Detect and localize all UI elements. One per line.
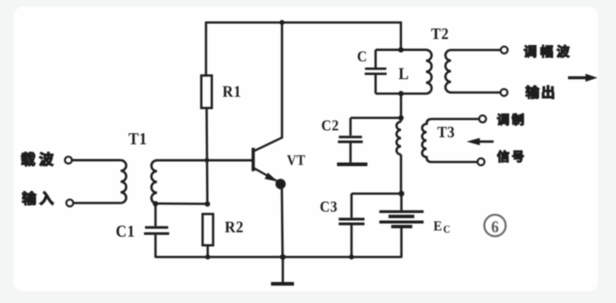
T1 label [129, 133, 146, 144]
transformer T3 secondary winding [422, 119, 479, 162]
label modulation (tiao zhi) [497, 114, 523, 126]
terminal carrier input top [65, 157, 72, 164]
wire T3 primary bottom to battery node [400, 155, 402, 194]
terminal signal bottom [478, 158, 485, 165]
transformer T2 secondary winding [445, 50, 451, 92]
wire tank left branch upper [374, 50, 376, 68]
figure number circled 6 [484, 215, 505, 236]
transformer T1 secondary winding [151, 160, 157, 203]
capacitor C tank [365, 67, 386, 69]
T2 label [431, 28, 448, 39]
wire tank left branch lower [374, 75, 376, 94]
wire R2 bottom lead [207, 245, 209, 257]
wire C3 top lead [350, 194, 352, 218]
wire VT emitter diagonal [254, 168, 279, 182]
label carrier (zai bo) [21, 152, 53, 166]
VT label [287, 155, 305, 165]
node R2/rail [205, 255, 210, 260]
node winding-bottom / R2 junction [205, 201, 210, 206]
wire bottom ground rail [156, 256, 402, 258]
ground symbol C2 [337, 163, 367, 167]
resistor R2 [203, 214, 214, 245]
wire top supply rail [206, 21, 402, 23]
wire C1 bottom lead [154, 235, 156, 258]
transformer T1 primary winding [121, 160, 127, 203]
wire tank bottom [376, 92, 426, 94]
C3 label [320, 202, 336, 212]
wire T1 secondary bottom to R2 node [156, 202, 208, 205]
C label tank cap [358, 51, 366, 61]
wire VT emitter down to rail [281, 184, 284, 257]
inductor L / T2 primary winding [426, 50, 432, 94]
wire terminal to T1 primary bottom [73, 202, 120, 204]
transistor VT base bar [252, 148, 255, 171]
label signal (xin hao) [497, 150, 524, 162]
terminal modulation top [479, 115, 486, 122]
battery Ec plates [379, 210, 423, 213]
wire R1 bottom to R2 [205, 108, 208, 204]
arrow modulation direction left [478, 140, 494, 142]
wire tank top [376, 49, 426, 51]
wire C3 bottom lead [350, 225, 352, 257]
terminal output bottom [501, 89, 508, 96]
Ec label [434, 221, 442, 230]
wire tank bottom down to T3 primary [400, 94, 402, 122]
T3 label [437, 127, 454, 138]
wire C2 top lead [349, 118, 351, 136]
C2 label [322, 120, 338, 130]
capacitor C2 [339, 136, 362, 139]
VT emitter arrowhead [265, 173, 278, 182]
C1 label [116, 226, 133, 237]
wire T2 secondary bottom to terminal [451, 91, 501, 93]
wire C1 top lead [154, 204, 156, 226]
R1 label [223, 86, 241, 97]
wire battery bottom lead [400, 228, 402, 258]
wire terminal to T1 primary top [72, 159, 121, 161]
transformer T3 primary winding [397, 122, 402, 155]
wire T2 secondary top to terminal [451, 49, 501, 51]
resistor R1 [201, 76, 212, 109]
label input (shu ru) [22, 191, 53, 205]
R2 label [225, 222, 243, 233]
node C1 tap [153, 201, 158, 206]
wire T1 secondary top to VT base [157, 159, 252, 161]
ground symbol [282, 257, 284, 282]
label AM wave (tiao fu bo) [524, 45, 569, 58]
wire battery top lead [400, 194, 402, 211]
label output (shu chu) [526, 85, 554, 98]
wire VT collector vertical [281, 23, 283, 139]
wire VT collector diagonal [254, 138, 282, 152]
node base-wire crossing [205, 158, 210, 163]
node battery top [399, 191, 405, 197]
wire C2 tap [351, 117, 402, 119]
wire rail corner down to tank [400, 22, 402, 51]
wire C3 top / battery node wire [352, 192, 402, 194]
wire C2 bottom lead [349, 143, 351, 162]
node emitter/rail ground tap [280, 254, 286, 260]
capacitor C3 [339, 218, 365, 221]
terminal AM-wave top [501, 47, 508, 54]
capacitor C1 [145, 226, 168, 229]
node C3/rail [349, 255, 354, 260]
L label [399, 68, 408, 79]
node tank top [398, 47, 403, 52]
terminal carrier input bottom [66, 200, 73, 207]
wire R1 top lead [205, 22, 207, 76]
node top-rail / collector junction [280, 20, 285, 25]
node tank bottom [398, 91, 403, 96]
arrow output direction [568, 76, 589, 79]
node VT emitter junction blob [275, 179, 285, 189]
node C2 tap [398, 115, 403, 120]
